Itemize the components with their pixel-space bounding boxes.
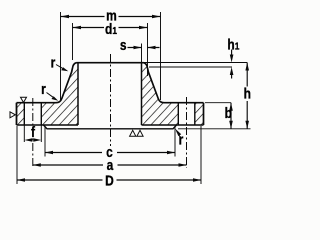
dimension a: [33, 157, 187, 174]
surface mark nabla on plate top: [21, 97, 27, 102]
label r top left: [51, 54, 69, 71]
dimension b: [205, 103, 233, 129]
bore wall left: [77, 63, 79, 126]
centerline bolt axis right: [186, 97, 188, 168]
svg-text:r: r: [51, 54, 56, 71]
hub outer profile right: [144, 63, 165, 103]
hub top edge (weld end): [77, 62, 144, 64]
plate outer edge left: [16, 103, 18, 125]
svg-text:s: s: [120, 37, 127, 54]
bore wall right: [141, 63, 143, 126]
dimension c: [45, 126, 175, 160]
flange left section hatch: [17, 63, 79, 126]
plate bottom: [17, 124, 204, 126]
surface mark triangle at left edge: [10, 112, 15, 118]
flange right section hatch: [142, 63, 204, 126]
svg-text:D: D: [105, 172, 114, 189]
bolt hole left edges: [24, 103, 41, 125]
label r mid left: [41, 81, 58, 101]
dimension D: [17, 126, 201, 189]
centerline flange axis: [110, 54, 112, 146]
plate outer edge right: [203, 103, 205, 125]
hub outer profile left: [56, 63, 77, 103]
dimension h: [178, 63, 251, 129]
bolt hole right edges: [178, 103, 195, 125]
centerline bolt axis left: [32, 98, 34, 168]
top edge extension line to h1/h: [144, 62, 248, 64]
sealing ledge outline: [44, 125, 177, 129]
dimension m: [61, 7, 161, 100]
dimension d1: [73, 21, 148, 76]
svg-text:h1: h1: [227, 36, 240, 53]
svg-text:h: h: [244, 85, 251, 102]
label r bottom right: [175, 129, 184, 148]
svg-text:b: b: [225, 105, 232, 122]
surface marks below sealing face: [130, 130, 136, 136]
plate top left: [17, 102, 57, 104]
svg-text:r: r: [41, 81, 46, 98]
dimension f: [24, 124, 41, 142]
dimension s: [120, 37, 160, 63]
plate top right: [164, 102, 204, 104]
svg-text:f: f: [31, 124, 35, 141]
svg-text:a: a: [107, 157, 114, 174]
dimension h1: [149, 36, 240, 78]
